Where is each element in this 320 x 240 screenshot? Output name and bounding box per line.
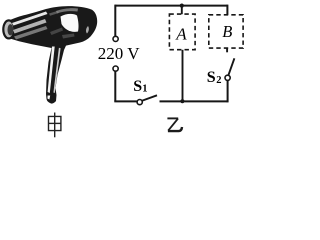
- wire: left vertical lower (terminal to bottom wire): [114, 71, 116, 101]
- supply bottom terminal circle: [113, 66, 118, 71]
- dryer body mottling above wedge: [56, 8, 78, 13]
- dryer cone lower highlight: [14, 26, 48, 40]
- nozzle opening: [3, 20, 14, 38]
- svg-text:1: 1: [142, 83, 147, 94]
- dryer body texture streak lower: [50, 28, 63, 36]
- svg-text:S: S: [207, 69, 216, 86]
- switch S1 blade: [142, 95, 157, 100]
- dashed box B: [209, 15, 243, 48]
- svg-text:B: B: [222, 22, 232, 41]
- svg-text:2: 2: [216, 75, 221, 86]
- svg-text:S: S: [133, 78, 142, 95]
- wire: branch A vertical (box A bottom to bottom wire): [182, 50, 184, 102]
- wire: stub from box B bottom: [226, 48, 228, 52]
- handle tip notch: [47, 96, 50, 100]
- hair dryer body: [5, 6, 97, 103]
- svg-text:220 V: 220 V: [98, 44, 140, 63]
- switch S2 pivot circle: [225, 75, 230, 80]
- dashed box A: [169, 14, 195, 50]
- dryer back cap highlight: [86, 26, 89, 34]
- dryer cone top highlight: [12, 12, 48, 26]
- svg-text:A: A: [175, 24, 187, 43]
- dryer body texture streak upper: [49, 11, 59, 16]
- handle white stripe right: [53, 48, 60, 93]
- switch S1 pivot circle: [137, 100, 142, 105]
- switch S2 blade: [229, 58, 235, 75]
- wire: bottom horizontal right (S1 to right corner): [160, 100, 228, 102]
- wire: stub from top wire into box A: [181, 6, 183, 15]
- dryer body texture streak under wedge: [62, 34, 75, 39]
- junction node on bottom wire: [180, 99, 184, 103]
- label 甲 (jiǎ) drawn as strokes: [49, 113, 61, 138]
- dryer cone mid highlight: [13, 19, 47, 34]
- wire: bottom horizontal left (to switch S1): [114, 100, 137, 102]
- label 乙 (yǐ) drawn as strokes: [167, 118, 182, 131]
- junction node on top wire: [180, 4, 184, 8]
- handle white stripe left: [48, 47, 55, 94]
- wire: top-right vertical into box B: [226, 5, 228, 15]
- wire: right vertical (S2 to bottom wire): [227, 81, 229, 103]
- dryer body white wedge before back cap: [61, 14, 79, 32]
- supply top terminal circle: [113, 36, 118, 41]
- wire: top horizontal: [115, 5, 227, 7]
- wire: left vertical upper (to supply top terminal): [114, 5, 116, 36]
